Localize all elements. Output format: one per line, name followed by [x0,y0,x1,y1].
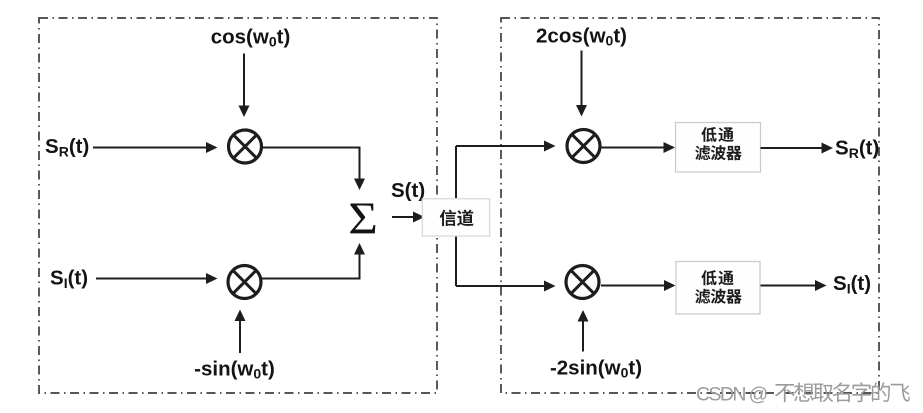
lowpass filter box F2 [676,262,760,315]
multiplier M3 [567,130,600,163]
label 低通 F1 line1 [701,127,716,142]
label channel 信道 [440,210,456,227]
svg-text:CSDN @: CSDN @ [696,384,768,406]
watermark 不想取名字的飞 [775,384,795,402]
wire branch to multiplier M3 [456,145,546,147]
wire summer to channel box [392,216,415,218]
wire 2cos(w0t) down into multiplier M3 [581,51,583,107]
wire F1 to SR(t) output [761,147,824,149]
label 低通 F2 line1 [701,270,716,285]
wire -2sin(w0t) up into multiplier M4 [582,320,584,352]
wire SI(t) into multiplier M2 [96,278,208,280]
svg-text:Σ: Σ [348,194,378,244]
channel box [422,199,489,236]
svg-text:SI(t): SI(t) [50,267,88,292]
svg-text:SI(t): SI(t) [833,272,871,297]
wire M2 to summer (elbow up) [262,278,361,280]
wire cos(w0t) down into multiplier M1 [243,54,245,108]
lowpass filter box F1 [676,123,761,173]
wire M3 to lowpass filter F1 [602,147,666,149]
svg-text:-2sin(w0t): -2sin(w0t) [550,357,642,381]
wire branch vertical from channel [455,146,457,286]
wire M1 to summer (elbow down) [263,147,361,149]
label 滤波器 F2 line2 [695,289,710,304]
svg-text:-sin(w0t): -sin(w0t) [194,358,275,382]
wire F2 to SI(t) output [761,285,817,287]
svg-text:2cos(w0t): 2cos(w0t) [536,25,627,49]
svg-text:S(t): S(t) [391,179,425,202]
wire branch to multiplier M4 [456,285,546,287]
multiplier M4 [566,266,599,299]
wire -sin(w0t) up into multiplier M2 [239,320,241,354]
wire M4 to lowpass filter F2 [601,285,666,287]
svg-text:cos(w0t): cos(w0t) [211,26,291,50]
multiplier M2 [228,266,261,299]
demodulator panel border (right dash-dot box) [501,18,879,393]
multiplier M1 [229,130,262,163]
modulator panel border (left dash-dot box) [39,18,437,393]
wire SR(t) into multiplier M1 [93,147,208,149]
label 滤波器 F1 line2 [695,145,710,160]
